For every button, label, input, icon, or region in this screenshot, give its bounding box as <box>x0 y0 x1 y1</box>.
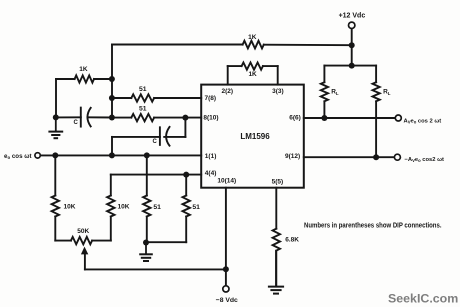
svg-text:51: 51 <box>139 86 147 93</box>
svg-text:AVeo cos 2 ωt: AVeo cos 2 ωt <box>404 118 442 124</box>
svg-text:9(12): 9(12) <box>285 153 300 160</box>
svg-text:10K: 10K <box>64 204 76 211</box>
svg-text:C: C <box>74 120 79 126</box>
svg-text:1(1): 1(1) <box>205 153 217 160</box>
svg-text:7(8): 7(8) <box>205 95 217 102</box>
svg-text:−AVeo cos2 ωt: −AVeo cos2 ωt <box>405 157 445 163</box>
svg-text:1K: 1K <box>248 71 257 78</box>
svg-text:51: 51 <box>192 204 200 211</box>
svg-text:3(3): 3(3) <box>272 88 284 95</box>
svg-text:8(10): 8(10) <box>203 114 218 121</box>
svg-text:−8 Vdc: −8 Vdc <box>216 297 238 304</box>
svg-text:10K: 10K <box>118 204 130 211</box>
svg-text:Numbers in parentheses show DI: Numbers in parentheses show DIP connecti… <box>304 223 442 230</box>
svg-text:50K: 50K <box>77 228 89 235</box>
svg-text:10(14): 10(14) <box>217 178 236 185</box>
svg-text:51: 51 <box>139 105 147 112</box>
svg-text:6.8K: 6.8K <box>285 236 299 243</box>
svg-text:5(5): 5(5) <box>272 179 284 186</box>
svg-text:6(6): 6(6) <box>289 114 301 121</box>
svg-text:1K: 1K <box>79 66 88 73</box>
svg-text:4(4): 4(4) <box>205 170 217 177</box>
svg-text:C: C <box>153 139 158 145</box>
svg-text:+12 Vdc: +12 Vdc <box>339 13 366 20</box>
svg-text:SeekIC.com: SeekIC.com <box>388 292 458 306</box>
svg-text:51: 51 <box>153 204 161 211</box>
svg-text:1K: 1K <box>248 34 257 41</box>
svg-text:2(2): 2(2) <box>222 88 234 95</box>
svg-text:LM1596: LM1596 <box>240 132 270 141</box>
